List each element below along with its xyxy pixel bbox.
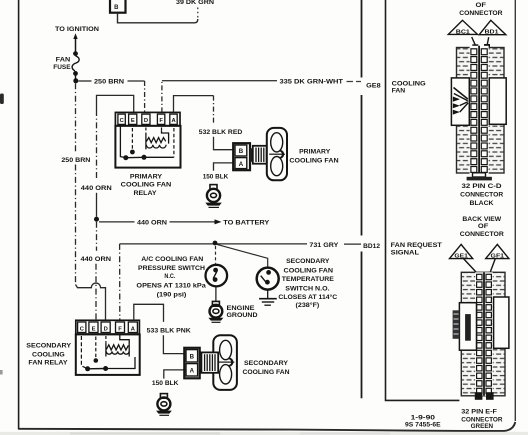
- svg-text:32 PIN E-F: 32 PIN E-F: [461, 408, 497, 415]
- svg-text:BC1: BC1: [456, 29, 470, 35]
- terminal flag BC1: [448, 20, 477, 35]
- wire to temperature switch: [217, 244, 268, 267]
- svg-text:GE8: GE8: [366, 82, 381, 89]
- svg-text:N.C.: N.C.: [164, 273, 175, 280]
- primary fan motor: [250, 146, 269, 164]
- svg-text:FAN RELAY: FAN RELAY: [28, 360, 68, 367]
- svg-text:(190 psi): (190 psi): [157, 292, 187, 299]
- svg-text:OF: OF: [478, 223, 489, 230]
- svg-text:(238°F): (238°F): [296, 301, 320, 309]
- svg-text:BLACK: BLACK: [470, 200, 495, 207]
- terminal BD12: [363, 243, 380, 250]
- junction at fuse output: [73, 78, 78, 83]
- wire label 39 DK GRN: [176, 0, 214, 6]
- terminal GE8: [366, 82, 381, 89]
- scan artifact left edge blob: [0, 94, 4, 375]
- svg-text:440 ORN: 440 ORN: [81, 185, 112, 192]
- svg-text:F: F: [159, 118, 163, 124]
- svg-text:FAN: FAN: [392, 87, 406, 94]
- secondary temperature switch: [257, 268, 279, 290]
- connector column line right: [386, 0, 460, 400]
- terminal flag GE1: [450, 244, 473, 259]
- svg-text:B: B: [114, 5, 119, 11]
- svg-text:OF: OF: [476, 2, 487, 9]
- svg-text:A: A: [190, 367, 195, 374]
- scan artifact bottom edge: [0, 432, 528, 435]
- connector 32 pin E-F body: [461, 272, 505, 396]
- svg-text:TEMPERATURE: TEMPERATURE: [282, 276, 335, 283]
- page frame right border: [514, 0, 516, 421]
- wire 150 BLK secondary fan ground: [152, 370, 186, 387]
- ignition feed connector terminal B: [110, 0, 126, 13]
- svg-text:OPENS AT 1310 kPa: OPENS AT 1310 kPa: [136, 283, 206, 290]
- ground secondary fan: [156, 394, 172, 416]
- secondary relay internal switch: [81, 336, 135, 371]
- wire 335 DK GRN-WHT from relay F to GE8: [162, 79, 361, 113]
- svg-text:SECONDARY: SECONDARY: [244, 360, 289, 367]
- wire 440 ORN from primary relay E down to junction: [81, 95, 134, 216]
- page frame bottom border: [19, 422, 516, 431]
- wire 440 ORN to secondary relay E: [81, 222, 112, 321]
- svg-text:B: B: [190, 353, 195, 360]
- secondary cooling fan relay body: [76, 334, 140, 375]
- primary fan connector B/A: [233, 143, 250, 170]
- svg-text:FAN: FAN: [56, 57, 71, 64]
- node TO IGNITION: [55, 26, 99, 52]
- svg-text:COOLING FAN: COOLING FAN: [289, 157, 338, 164]
- svg-text:D: D: [104, 326, 108, 332]
- primary fan blades: [267, 128, 287, 180]
- svg-text:39 DK GRN: 39 DK GRN: [176, 0, 214, 6]
- connector E-F bottom key: [475, 392, 494, 400]
- junction pressure switch tap: [213, 241, 218, 246]
- svg-text:440 ORN: 440 ORN: [81, 256, 112, 263]
- svg-text:SWITCH N.O.: SWITCH N.O.: [285, 285, 330, 292]
- primary relay coil: [146, 128, 169, 150]
- engine ground: [208, 301, 223, 322]
- drawing date and number: [405, 414, 441, 428]
- wire to secondary relay F: [119, 244, 121, 320]
- temperature switch label: [278, 258, 337, 309]
- terminal flag GF1: [486, 244, 509, 259]
- svg-text:532 BLK RED: 532 BLK RED: [199, 129, 243, 136]
- connector E-F left lock tab: [459, 303, 476, 351]
- svg-text:COOLING FAN: COOLING FAN: [243, 369, 290, 376]
- svg-text:B: B: [239, 148, 244, 155]
- svg-text:RELAY: RELAY: [134, 190, 158, 197]
- wire 250 BRN to relay terminal D: [78, 79, 144, 113]
- primary cooling fan relay body: [115, 126, 180, 168]
- primary cooling fan relay terminal strip: [115, 112, 180, 125]
- svg-text:GE1: GE1: [454, 253, 468, 259]
- secondary cooling fan relay terminal strip: [76, 320, 140, 334]
- svg-text:FAN REQUEST: FAN REQUEST: [391, 242, 442, 249]
- svg-text:533 BLK PNK: 533 BLK PNK: [147, 327, 191, 334]
- label back view of connector (bottom): [460, 216, 504, 238]
- svg-text:F: F: [118, 326, 122, 332]
- junction 440 ORN battery tap: [94, 217, 99, 222]
- secondary relay label: [26, 343, 71, 367]
- svg-text:GF1: GF1: [491, 253, 505, 259]
- svg-text:CONNECTOR: CONNECTOR: [460, 191, 504, 198]
- connector E-F right lock tab: [494, 297, 509, 348]
- svg-text:A: A: [239, 161, 244, 168]
- svg-text:COOLING FAN: COOLING FAN: [284, 267, 334, 274]
- svg-text:A/C COOLING FAN: A/C COOLING FAN: [141, 256, 203, 263]
- wire from terminal B to 39 DK GRN: [118, 5, 198, 23]
- primary relay internal switch: [120, 126, 173, 160]
- page frame left border: [18, 0, 20, 430]
- terminal flag BD1: [479, 20, 506, 35]
- svg-text:150 BLK: 150 BLK: [152, 380, 179, 387]
- svg-text:COOLING: COOLING: [32, 352, 65, 359]
- wire 440 ORN to battery: [99, 219, 270, 226]
- temperature switch ground: [259, 290, 277, 305]
- secondary fan label: [243, 360, 290, 376]
- svg-text:CLOSES AT 114°C: CLOSES AT 114°C: [278, 293, 337, 301]
- label cooling fan: [392, 80, 426, 94]
- label fan request signal: [391, 242, 442, 257]
- svg-text:GREEN: GREEN: [471, 423, 494, 430]
- connector E-F side latch: [453, 310, 460, 339]
- wire to pressure switch: [215, 246, 217, 264]
- ground primary fan: [205, 185, 222, 208]
- connector 32 pin C-D body: [457, 46, 505, 177]
- wire 250 BRN left vertical to secondary relay D: [61, 83, 105, 320]
- primary relay label: [121, 174, 172, 198]
- svg-text:SECONDARY: SECONDARY: [26, 343, 71, 350]
- label 32 pin C-D connector black: [460, 183, 504, 207]
- svg-text:FUSE: FUSE: [53, 64, 71, 71]
- svg-text:COOLING: COOLING: [392, 80, 426, 87]
- secondary relay coil: [106, 334, 129, 356]
- wire 533 BLK PNK from secondary relay A to secondary fan B: [134, 304, 191, 353]
- svg-text:PRIMARY: PRIMARY: [130, 174, 163, 181]
- secondary fan blades: [219, 340, 235, 384]
- connector C-D right lock tab: [489, 78, 506, 124]
- svg-text:CONNECTOR: CONNECTOR: [459, 10, 503, 17]
- svg-text:E: E: [92, 326, 96, 332]
- svg-text:SECONDARY: SECONDARY: [286, 258, 330, 265]
- a/c pressure switch label: [136, 256, 206, 299]
- wire 150 BLK primary fan ground: [203, 163, 233, 181]
- fan fuse: [53, 51, 79, 81]
- svg-text:TO IGNITION: TO IGNITION: [55, 26, 99, 33]
- label back view of connector (top): [459, 2, 503, 17]
- svg-text:BD1: BD1: [485, 30, 499, 36]
- secondary fan motor: [200, 335, 237, 390]
- primary fan label: [289, 149, 338, 165]
- svg-text:PRESSURE SWITCH: PRESSURE SWITCH: [138, 265, 205, 272]
- svg-text:PRIMARY: PRIMARY: [299, 149, 331, 156]
- svg-text:BD12: BD12: [363, 243, 380, 250]
- wire fan request 731 GRY horizontal: [120, 242, 361, 249]
- wires into connector C-D: [472, 37, 490, 50]
- svg-text:TO BATTERY: TO BATTERY: [223, 219, 270, 226]
- svg-text:731 GRY: 731 GRY: [309, 242, 339, 249]
- svg-text:COOLING FAN: COOLING FAN: [121, 182, 172, 189]
- connector column line left: [361, 0, 363, 398]
- svg-text:E: E: [131, 118, 135, 124]
- svg-text:150 BLK: 150 BLK: [203, 174, 229, 181]
- svg-text:9S 7455-6E: 9S 7455-6E: [405, 422, 441, 429]
- secondary fan connector B/A: [184, 348, 199, 379]
- svg-text:GROUND: GROUND: [227, 312, 258, 319]
- svg-text:1-9-90: 1-9-90: [411, 414, 436, 421]
- svg-text:D: D: [144, 118, 148, 124]
- svg-text:335 DK GRN-WHT: 335 DK GRN-WHT: [280, 79, 344, 86]
- connector C-D left lock tab with wires: [451, 78, 469, 125]
- svg-text:440 ORN: 440 ORN: [137, 219, 167, 226]
- svg-text:BACK VIEW: BACK VIEW: [462, 216, 502, 223]
- svg-text:250 BRN: 250 BRN: [94, 79, 124, 86]
- wire 532 BLK RED from relay A to primary fan B: [174, 96, 243, 150]
- a/c pressure switch: [206, 265, 228, 301]
- engine ground label: [227, 305, 258, 319]
- svg-text:32 PIN C-D: 32 PIN C-D: [462, 183, 503, 190]
- svg-text:SIGNAL: SIGNAL: [391, 250, 419, 257]
- svg-text:CONNECTOR: CONNECTOR: [460, 231, 504, 238]
- svg-text:250 BRN: 250 BRN: [61, 157, 90, 164]
- svg-text:ENGINE: ENGINE: [227, 305, 256, 312]
- wires into connector E-F: [464, 259, 496, 278]
- label 32 pin E-F connector green: [461, 408, 503, 430]
- connector C-D bottom key: [467, 173, 492, 181]
